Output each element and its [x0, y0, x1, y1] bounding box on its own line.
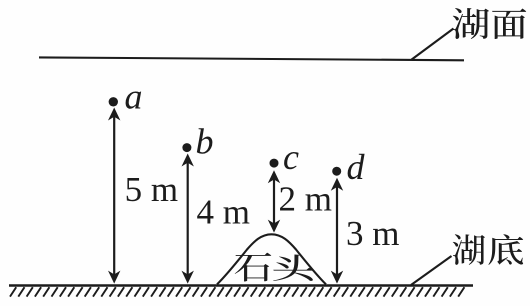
- svg-text:4 m: 4 m: [197, 192, 250, 231]
- lake surface pointer line: [412, 29, 454, 60]
- arrow 5 m (double-headed): [108, 108, 120, 284]
- label 湖面 (lake surface): [453, 8, 527, 39]
- point b dot: [182, 143, 191, 152]
- point a dot: [109, 97, 118, 106]
- svg-text:a: a: [125, 77, 143, 117]
- lake surface line: [39, 57, 464, 60]
- point d dot: [332, 167, 341, 176]
- svg-text:c: c: [283, 137, 299, 177]
- svg-text:d: d: [347, 147, 366, 187]
- lake bottom line: [9, 284, 473, 287]
- svg-text:5 m: 5 m: [125, 170, 178, 209]
- lake bottom hatching: [10, 287, 464, 296]
- arrow 4 m (double-headed): [182, 154, 194, 284]
- svg-text:b: b: [196, 122, 214, 162]
- arrow 2 m (double-headed): [268, 170, 280, 232]
- svg-text:2 m: 2 m: [279, 179, 332, 218]
- arrow 3 m (double-headed): [331, 178, 343, 284]
- label 湖底 (lake bottom): [453, 234, 523, 265]
- label 石头 (stone): [235, 253, 314, 282]
- lake bottom pointer line: [411, 256, 452, 285]
- point c dot: [270, 159, 279, 168]
- stone mound outline: [217, 234, 326, 284]
- svg-text:3 m: 3 m: [346, 214, 399, 253]
